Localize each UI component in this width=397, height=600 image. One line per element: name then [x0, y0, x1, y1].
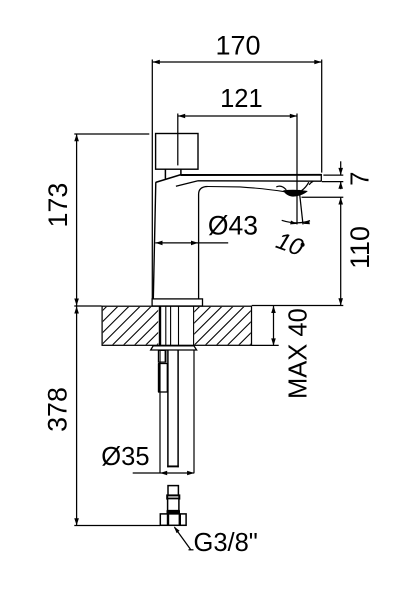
G3/8 leader line	[175, 527, 191, 550]
degree dot of 10deg	[301, 243, 305, 247]
svg-text:Ø43: Ø43	[208, 211, 258, 241]
shank hole left boundary (thick)	[159, 306, 161, 345]
dim 7 bottom extension	[322, 181, 344, 183]
supply hose outer right	[193, 350, 195, 473]
shank line c	[178, 306, 180, 345]
arrow 7 top	[338, 168, 343, 175]
arrow 121 left	[178, 114, 185, 119]
arrow 110 bottom	[338, 298, 343, 305]
arrow 10deg right	[303, 220, 310, 224]
arrow 378 bottom	[74, 518, 79, 525]
dim 121 right extension / outlet centerline	[296, 114, 298, 225]
fitting collar band	[167, 495, 179, 498]
fitting nut	[160, 514, 186, 525]
dim 121 left extension / handle centerline	[177, 114, 179, 166]
dim 173/378 middle extension (countertop level)	[74, 305, 101, 307]
arrow 378 top	[74, 306, 79, 313]
dim 110 top extension	[302, 196, 344, 198]
arrow 110 top	[338, 197, 343, 204]
arrow O35 right	[187, 471, 194, 476]
shank hole right boundary	[193, 306, 195, 345]
shank line a	[165, 306, 167, 345]
shoulder diagonal	[156, 175, 181, 183]
arrow 7 bottom	[338, 182, 343, 189]
dim O35 line	[133, 472, 195, 474]
dim 7 lower tail	[340, 182, 342, 190]
arrow 173 bottom	[74, 299, 79, 306]
10deg arc	[282, 220, 310, 223]
base plate	[152, 299, 202, 306]
handle block	[156, 134, 198, 170]
pop-up rod upper segment	[158, 350, 166, 362]
arrow 121 right	[290, 114, 297, 119]
handle neck left edge	[164, 169, 166, 179]
arrow 10deg left	[290, 221, 297, 225]
dim 7 top extension	[323, 174, 343, 176]
spout under contour	[208, 187, 285, 192]
countertop slab outline	[102, 306, 251, 345]
svg-text:173: 173	[43, 183, 73, 228]
10deg slanted ray	[299, 190, 303, 224]
arrow 170 left	[153, 60, 160, 65]
mounting washer	[151, 346, 197, 350]
fitting thick band	[167, 511, 180, 514]
dim MAX40 line	[273, 306, 275, 346]
spout top edge	[181, 174, 322, 176]
svg-text:170: 170	[215, 31, 260, 61]
arrow G3/8 leader	[174, 526, 180, 533]
arrow O43 right	[191, 241, 198, 246]
column left edge	[153, 182, 156, 299]
countertop hatching left	[57, 306, 196, 345]
supply hose outer left	[159, 350, 161, 473]
arrow O35 left	[160, 471, 167, 476]
dim 378 bottom extension	[74, 525, 160, 527]
svg-text:7: 7	[346, 172, 374, 186]
aerator bulge left hook	[276, 186, 286, 190]
dim 121 line	[178, 115, 297, 117]
arrow 173 top	[74, 134, 79, 141]
dim O43 line	[155, 242, 228, 244]
spout bottom-left slope	[176, 181, 198, 186]
aerator right curve 1	[309, 181, 313, 185]
dim 170 line	[153, 61, 322, 63]
spout tip right edge	[320, 174, 322, 182]
shank line b	[170, 306, 172, 345]
dim 7 upper tail	[340, 161, 342, 175]
aerator right curve 2	[302, 182, 309, 190]
arrow 170 right	[314, 60, 321, 65]
aerator dark lens	[284, 190, 307, 196]
svg-text:MAX 40: MAX 40	[284, 308, 312, 399]
dim MAX40 bottom extension	[252, 344, 279, 346]
svg-text:121: 121	[220, 85, 263, 113]
svg-text:378: 378	[42, 387, 72, 432]
svg-text:110: 110	[345, 226, 375, 269]
arrow MAX40 top	[271, 306, 276, 313]
arrow O43 left	[155, 241, 162, 246]
fitting middle body	[168, 499, 179, 511]
dim 173 top extension	[74, 133, 149, 135]
pop-up rod lower segment	[159, 364, 168, 393]
handle neck right edge	[180, 169, 182, 175]
dim 110 line	[340, 197, 342, 305]
arrow MAX40 bottom	[271, 338, 276, 345]
spout bottom edge	[198, 180, 322, 182]
dim 110 bottom / MAX40 top extension	[252, 305, 343, 307]
dim 173-378 vertical line	[76, 134, 78, 526]
dim 170 left extension	[151, 60, 153, 299]
hose inner tube	[167, 350, 169, 467]
fitting top nipple	[168, 486, 178, 496]
countertop hatching right	[150, 306, 289, 345]
svg-text:G3/8": G3/8"	[194, 529, 258, 557]
dim 170 right extension	[321, 60, 323, 173]
svg-text:Ø35: Ø35	[101, 443, 149, 471]
column right edge with fillet	[199, 187, 208, 299]
